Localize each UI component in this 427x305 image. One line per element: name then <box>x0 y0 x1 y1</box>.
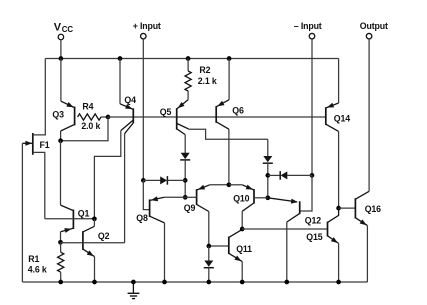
svg-text:+ Input: + Input <box>133 21 161 31</box>
wire R4 node down <box>61 117 108 141</box>
transistor F1 <box>22 59 45 283</box>
label Q10 <box>233 194 249 204</box>
wire Q15 emitter down <box>338 243 340 282</box>
junction Q11 collector node <box>240 227 245 232</box>
transistor Q16 <box>339 191 370 225</box>
wire Q4 collector1 down <box>124 134 126 243</box>
transistor Q9 <box>185 185 229 212</box>
wire Q2 base line <box>61 242 125 244</box>
svg-text:Q2: Q2 <box>98 231 110 241</box>
wire VCC top rail <box>45 58 338 60</box>
label 4.6 k <box>28 264 47 274</box>
junction Q10 base node <box>265 195 270 200</box>
junction D1 anode node <box>183 178 188 183</box>
diode D3 <box>263 139 273 198</box>
junction +input diode node <box>141 178 146 183</box>
transistor Q1 <box>61 141 74 243</box>
wire collector line to Q15 <box>242 228 327 230</box>
junction VCC rail at R2 <box>186 56 191 61</box>
transistor Q10 <box>229 185 268 212</box>
svg-text:Q8: Q8 <box>136 213 148 223</box>
svg-text:Q6: Q6 <box>232 105 244 115</box>
resistor R4 <box>78 114 108 120</box>
svg-text:R1: R1 <box>28 254 39 264</box>
wire -input vertical <box>311 44 313 175</box>
wire Q1 base line <box>45 218 95 220</box>
label R2 <box>199 65 210 75</box>
junction rail Q12 <box>284 280 289 285</box>
node VCC terminal <box>58 34 64 58</box>
transistor Q6 <box>216 59 229 130</box>
transistor Q2 <box>83 219 95 257</box>
label 2.0 k <box>81 121 100 131</box>
resistor R1 <box>58 242 64 282</box>
label VCC <box>54 21 74 34</box>
junction Q1 base node <box>92 216 97 221</box>
transistor Q8 <box>150 196 186 223</box>
junction rail R1 <box>58 280 63 285</box>
svg-text:Q5: Q5 <box>160 107 172 117</box>
label Q12 <box>305 215 321 225</box>
svg-text:Q9: Q9 <box>184 203 196 213</box>
svg-text:Q1: Q1 <box>78 208 90 218</box>
svg-text:Q16: Q16 <box>365 204 381 214</box>
svg-text:Q3: Q3 <box>52 109 64 119</box>
svg-text:Q10: Q10 <box>233 194 249 204</box>
label Q8 <box>136 213 148 223</box>
label F1 <box>40 140 50 150</box>
junction rail Q15 <box>336 280 341 285</box>
label R4 <box>82 102 93 112</box>
transistor Q5 <box>177 100 189 135</box>
resistor R2 <box>185 59 191 100</box>
svg-text:Output: Output <box>360 21 388 31</box>
wire Q16 emitter down <box>366 226 368 282</box>
label Q2 <box>98 231 110 241</box>
svg-text:V: V <box>54 21 62 33</box>
junction Q9 base node <box>183 195 188 200</box>
wire Q10 collector down <box>241 211 243 229</box>
wire Q11 emitter down <box>241 262 243 282</box>
junction Q11 base node <box>206 244 211 249</box>
label Q16 <box>365 204 381 214</box>
label 2.1 k <box>198 76 217 86</box>
svg-text:R2: R2 <box>199 65 210 75</box>
node +Input terminal <box>141 33 147 44</box>
junction Q16 base node <box>336 206 341 211</box>
junction VCC rail at Q6 <box>227 56 232 61</box>
svg-text:F1: F1 <box>40 140 50 150</box>
wire Q5 collector1 down <box>184 135 186 154</box>
diode D4 <box>268 171 312 180</box>
wire -input to Q12 base <box>300 175 312 211</box>
junction rail Q8 <box>162 280 167 285</box>
junction R4 bias node <box>106 115 111 120</box>
svg-text:2.1 k: 2.1 k <box>198 76 217 86</box>
svg-text:Q11: Q11 <box>236 244 252 254</box>
junction rail Q11 <box>240 280 245 285</box>
label + Input <box>133 21 161 31</box>
svg-text:Q4: Q4 <box>124 95 136 105</box>
wire Q14 collector down <box>338 131 340 208</box>
junction mirror node <box>227 182 232 187</box>
label Q3 <box>52 109 64 119</box>
junction Q3 collector node <box>58 138 63 143</box>
label Q14 <box>334 113 350 123</box>
label Q4 <box>124 95 136 105</box>
transistor Q3 <box>61 59 75 141</box>
diode D5 <box>143 176 185 185</box>
junction VCC rail at Q4 <box>118 56 123 61</box>
svg-text:4.6 k: 4.6 k <box>28 264 47 274</box>
wire ground bottom rail <box>22 281 367 283</box>
label Output <box>360 21 388 31</box>
transistor Q14 <box>326 59 339 132</box>
node Output terminal <box>366 33 372 44</box>
label R1 <box>28 254 39 264</box>
transistor Q15 <box>328 208 339 243</box>
transistor Q11 <box>209 229 242 261</box>
wire Q12 collector down <box>286 222 288 282</box>
junction -input diode node <box>310 173 315 178</box>
wire Q5 collector2 path <box>189 129 268 139</box>
svg-text:Q12: Q12 <box>305 215 321 225</box>
wire +input to Q8 base <box>143 180 149 209</box>
svg-text:– Input: – Input <box>294 21 322 31</box>
svg-text:Q14: Q14 <box>334 113 350 123</box>
transistor Q4 <box>120 59 133 134</box>
junction D3 cathode node <box>265 173 270 178</box>
wire Q6 collector down <box>228 129 230 185</box>
junction Q1 emitter node <box>58 240 63 245</box>
label Q9 <box>184 203 196 213</box>
node -Input terminal <box>309 33 315 44</box>
label Q5 <box>160 107 172 117</box>
transistor Q12 <box>268 198 300 222</box>
diode D1 <box>180 153 190 198</box>
svg-text:R4: R4 <box>82 102 93 112</box>
label Q6 <box>232 105 244 115</box>
wire Q16 collector to output <box>368 44 370 191</box>
junction rail Q2 <box>92 280 97 285</box>
wire Q9 collector down <box>208 212 210 247</box>
wire +input vertical <box>142 44 144 180</box>
junction rail D2 <box>206 280 211 285</box>
junction VCC rail at Q3 <box>59 56 64 61</box>
ground <box>128 280 140 299</box>
label Q1 <box>78 208 90 218</box>
label Q11 <box>236 244 252 254</box>
svg-text:Q15: Q15 <box>306 232 322 242</box>
wire bias line <box>108 116 326 118</box>
wire Q8 collector down <box>164 223 166 282</box>
diode D2 <box>204 246 214 282</box>
svg-text:CC: CC <box>62 25 74 34</box>
svg-text:2.0 k: 2.0 k <box>81 121 100 131</box>
label Q15 <box>306 232 322 242</box>
wire Q2 emitter down <box>94 257 96 282</box>
label - Input <box>294 21 322 31</box>
wire Q4 collector2 step <box>94 131 120 219</box>
